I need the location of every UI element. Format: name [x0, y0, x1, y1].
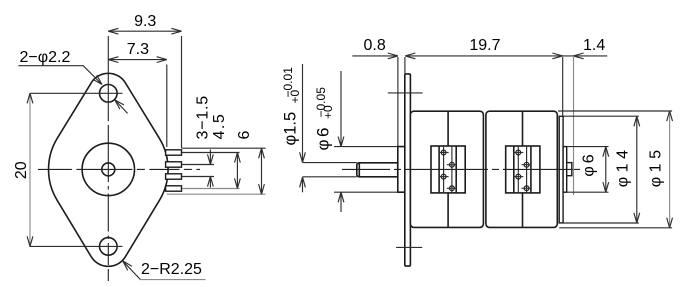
side view: motor body section 2	[486, 111, 557, 227]
dimension phi1.5	[302, 64, 304, 162]
svg-text:3−1.5: 3−1.5	[195, 95, 212, 139]
dimension 7.3	[108, 59, 167, 61]
front view: pilot boss circle	[82, 143, 134, 195]
svg-text:7.3: 7.3	[127, 41, 149, 58]
svg-text:0.8: 0.8	[363, 37, 385, 54]
svg-text:19.7: 19.7	[469, 37, 500, 54]
svg-text:9.3: 9.3	[134, 13, 156, 30]
front view: vertical centerline	[107, 36, 109, 118]
label phi1.5 +0/-0.01 (rotated)	[281, 67, 302, 146]
svg-text:−0.05: −0.05	[314, 87, 328, 118]
side view: rear shaft stub	[567, 163, 572, 176]
label phi6 +0/-0.05 (rotated)	[314, 87, 336, 151]
svg-text:φ6: φ6	[314, 125, 333, 150]
svg-text:φ1.5: φ1.5	[282, 112, 300, 146]
side view: output shaft	[357, 163, 398, 177]
svg-text:2−φ2.2: 2−φ2.2	[20, 49, 71, 66]
side view: front pilot boss	[398, 147, 405, 193]
side view: mounting flange plate	[405, 74, 411, 266]
front view: horizontal centerline through top hole / 20-dim top extension	[30, 92, 123, 94]
side view: section seam line 2	[522, 112, 524, 146]
dimension 6	[261, 148, 263, 194]
dimension phi14	[564, 115, 639, 117]
svg-text:20: 20	[13, 161, 30, 179]
side view: horizontal centerline	[342, 168, 580, 170]
dimension phi6 (rear boss)	[567, 146, 609, 148]
dimension 4.5	[236, 153, 238, 189]
dimension 3-1.5 (pin pitch)	[209, 150, 211, 165]
side view: motor body section 1	[410, 111, 483, 227]
svg-text:φ6: φ6	[580, 151, 597, 176]
dimension phi15	[558, 110, 672, 112]
dimension phi6 (front boss)	[340, 71, 342, 147]
svg-text:φ15: φ15	[648, 146, 665, 188]
side view: rear boss (phi6)	[563, 147, 567, 193]
side view: flange hole centerline bottom	[396, 246, 422, 248]
side view: flange hole centerline top	[388, 92, 423, 94]
front view: top mounting hole	[100, 85, 118, 103]
front view: motor mounting flange outline	[49, 73, 169, 266]
dimension 19.7	[405, 55, 562, 57]
svg-text:6: 6	[236, 131, 253, 140]
dimension 20	[29, 93, 31, 246]
svg-text:4.5: 4.5	[211, 113, 228, 140]
front view: bottom mounting hole	[100, 238, 118, 256]
svg-text:1.4: 1.4	[583, 37, 605, 54]
front view: horizontal centerline through center	[38, 168, 200, 170]
front view: horizontal centerline through bottom hole / 20-dim bottom extension	[30, 245, 123, 247]
side view: terminal block 1 with pins	[431, 146, 465, 193]
svg-text:−0.01: −0.01	[281, 67, 295, 98]
front view: shaft circle	[102, 163, 115, 176]
dimension 0.8	[352, 55, 398, 57]
svg-text:2−R2.25: 2−R2.25	[141, 261, 202, 278]
pin dimension extension lines	[182, 152, 240, 154]
dimension 1.4	[563, 55, 608, 57]
svg-text:φ14: φ14	[615, 146, 632, 188]
dimension 9.3	[108, 30, 181, 32]
side view: section seam line 1	[447, 112, 449, 146]
side view: terminal block 2 with pins	[506, 146, 540, 193]
front view: 4 terminal pins	[166, 150, 182, 155]
side view: rear end cap (phi14)	[559, 116, 563, 223]
